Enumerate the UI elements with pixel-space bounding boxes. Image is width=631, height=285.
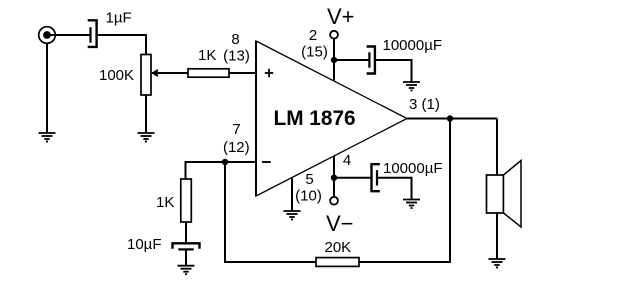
svg-text:1K: 1K xyxy=(156,194,174,211)
wire R3 to C4 xyxy=(185,222,187,244)
V- terminal circle xyxy=(330,197,338,205)
capacitor C3 10000uF (bottom) xyxy=(372,164,380,191)
wire feedback right vertical xyxy=(449,119,451,264)
speaker LS1 xyxy=(487,161,522,228)
resistor R3 1K (vertical) xyxy=(181,179,192,222)
potentiometer R1 100K body xyxy=(141,55,151,96)
wire V+ to op-amp pin 2 xyxy=(333,39,335,81)
svg-text:1µF: 1µF xyxy=(106,10,132,27)
wire R2 to op-amp + input xyxy=(229,72,256,74)
wire feedback bottom left xyxy=(224,261,316,263)
wire node to C3 xyxy=(334,177,371,179)
svg-text:(13): (13) xyxy=(223,48,250,65)
ground (C3) xyxy=(403,200,420,209)
wire jack to ground xyxy=(46,44,48,134)
svg-text:4: 4 xyxy=(343,152,351,169)
svg-text:3 (1): 3 (1) xyxy=(409,96,440,113)
wire to R3 top xyxy=(185,161,187,179)
svg-text:LM 1876: LM 1876 xyxy=(274,107,356,130)
resistor R4 20K xyxy=(316,258,359,267)
wire feedback bottom right xyxy=(359,261,451,263)
output wire pin 3 xyxy=(407,118,497,120)
ground (potentiometer) xyxy=(138,133,155,142)
junction node feedback xyxy=(222,159,228,165)
wire pot to ground xyxy=(145,95,147,133)
svg-text:(12): (12) xyxy=(223,139,250,156)
wire C4 to ground xyxy=(185,249,187,265)
svg-text:10000µF: 10000µF xyxy=(383,37,443,54)
wire speaker to ground xyxy=(496,213,498,259)
svg-text:7: 7 xyxy=(232,121,240,138)
op-amp + input sign xyxy=(265,69,273,77)
op-amp U1 LM1876 xyxy=(256,41,407,196)
input jack J1 xyxy=(39,27,56,44)
svg-text:1K: 1K xyxy=(198,47,216,64)
wire op-amp pin 4 down xyxy=(333,156,335,197)
wire node to C2 xyxy=(334,59,369,61)
ground (C2) xyxy=(403,82,420,91)
svg-text:20K: 20K xyxy=(325,239,352,256)
svg-text:V+: V+ xyxy=(327,4,355,29)
ground (speaker) xyxy=(489,259,506,268)
wire C3 to ground xyxy=(377,178,412,200)
svg-text:8: 8 xyxy=(231,31,239,48)
svg-text:2: 2 xyxy=(309,27,317,44)
svg-text:100K: 100K xyxy=(99,67,134,84)
V+ terminal circle xyxy=(330,31,338,39)
wire C1 to pot top xyxy=(97,35,146,55)
resistor R2 1K (horizontal) xyxy=(188,69,229,77)
wire pin 5 to ground xyxy=(291,178,293,212)
capacitor C1 1uF xyxy=(88,20,97,47)
ground (pin 5) xyxy=(284,211,301,220)
wire C2 to ground xyxy=(375,60,412,82)
svg-text:(10): (10) xyxy=(295,188,322,205)
wire feedback left vertical xyxy=(224,162,226,262)
svg-text:5: 5 xyxy=(305,171,313,188)
capacitor C4 10uF (vertical) xyxy=(173,243,200,249)
capacitor C2 10000uF (top) xyxy=(367,47,375,74)
op-amp - input sign xyxy=(262,161,271,163)
svg-text:(15): (15) xyxy=(301,44,328,61)
ground (input jack) xyxy=(39,133,56,142)
ground (C4) xyxy=(178,266,195,275)
svg-text:10000µF: 10000µF xyxy=(383,160,443,177)
junction node pin4/C3 xyxy=(331,175,337,181)
potentiometer wiper arrow xyxy=(151,69,188,77)
wire output to speaker xyxy=(496,119,498,176)
wire jack to C1 xyxy=(50,34,90,36)
junction node output xyxy=(447,115,453,121)
junction node pin2/C2 xyxy=(331,57,337,63)
svg-text:V−: V− xyxy=(326,211,354,236)
wire inverting input xyxy=(186,161,257,163)
svg-text:10µF: 10µF xyxy=(127,236,162,253)
